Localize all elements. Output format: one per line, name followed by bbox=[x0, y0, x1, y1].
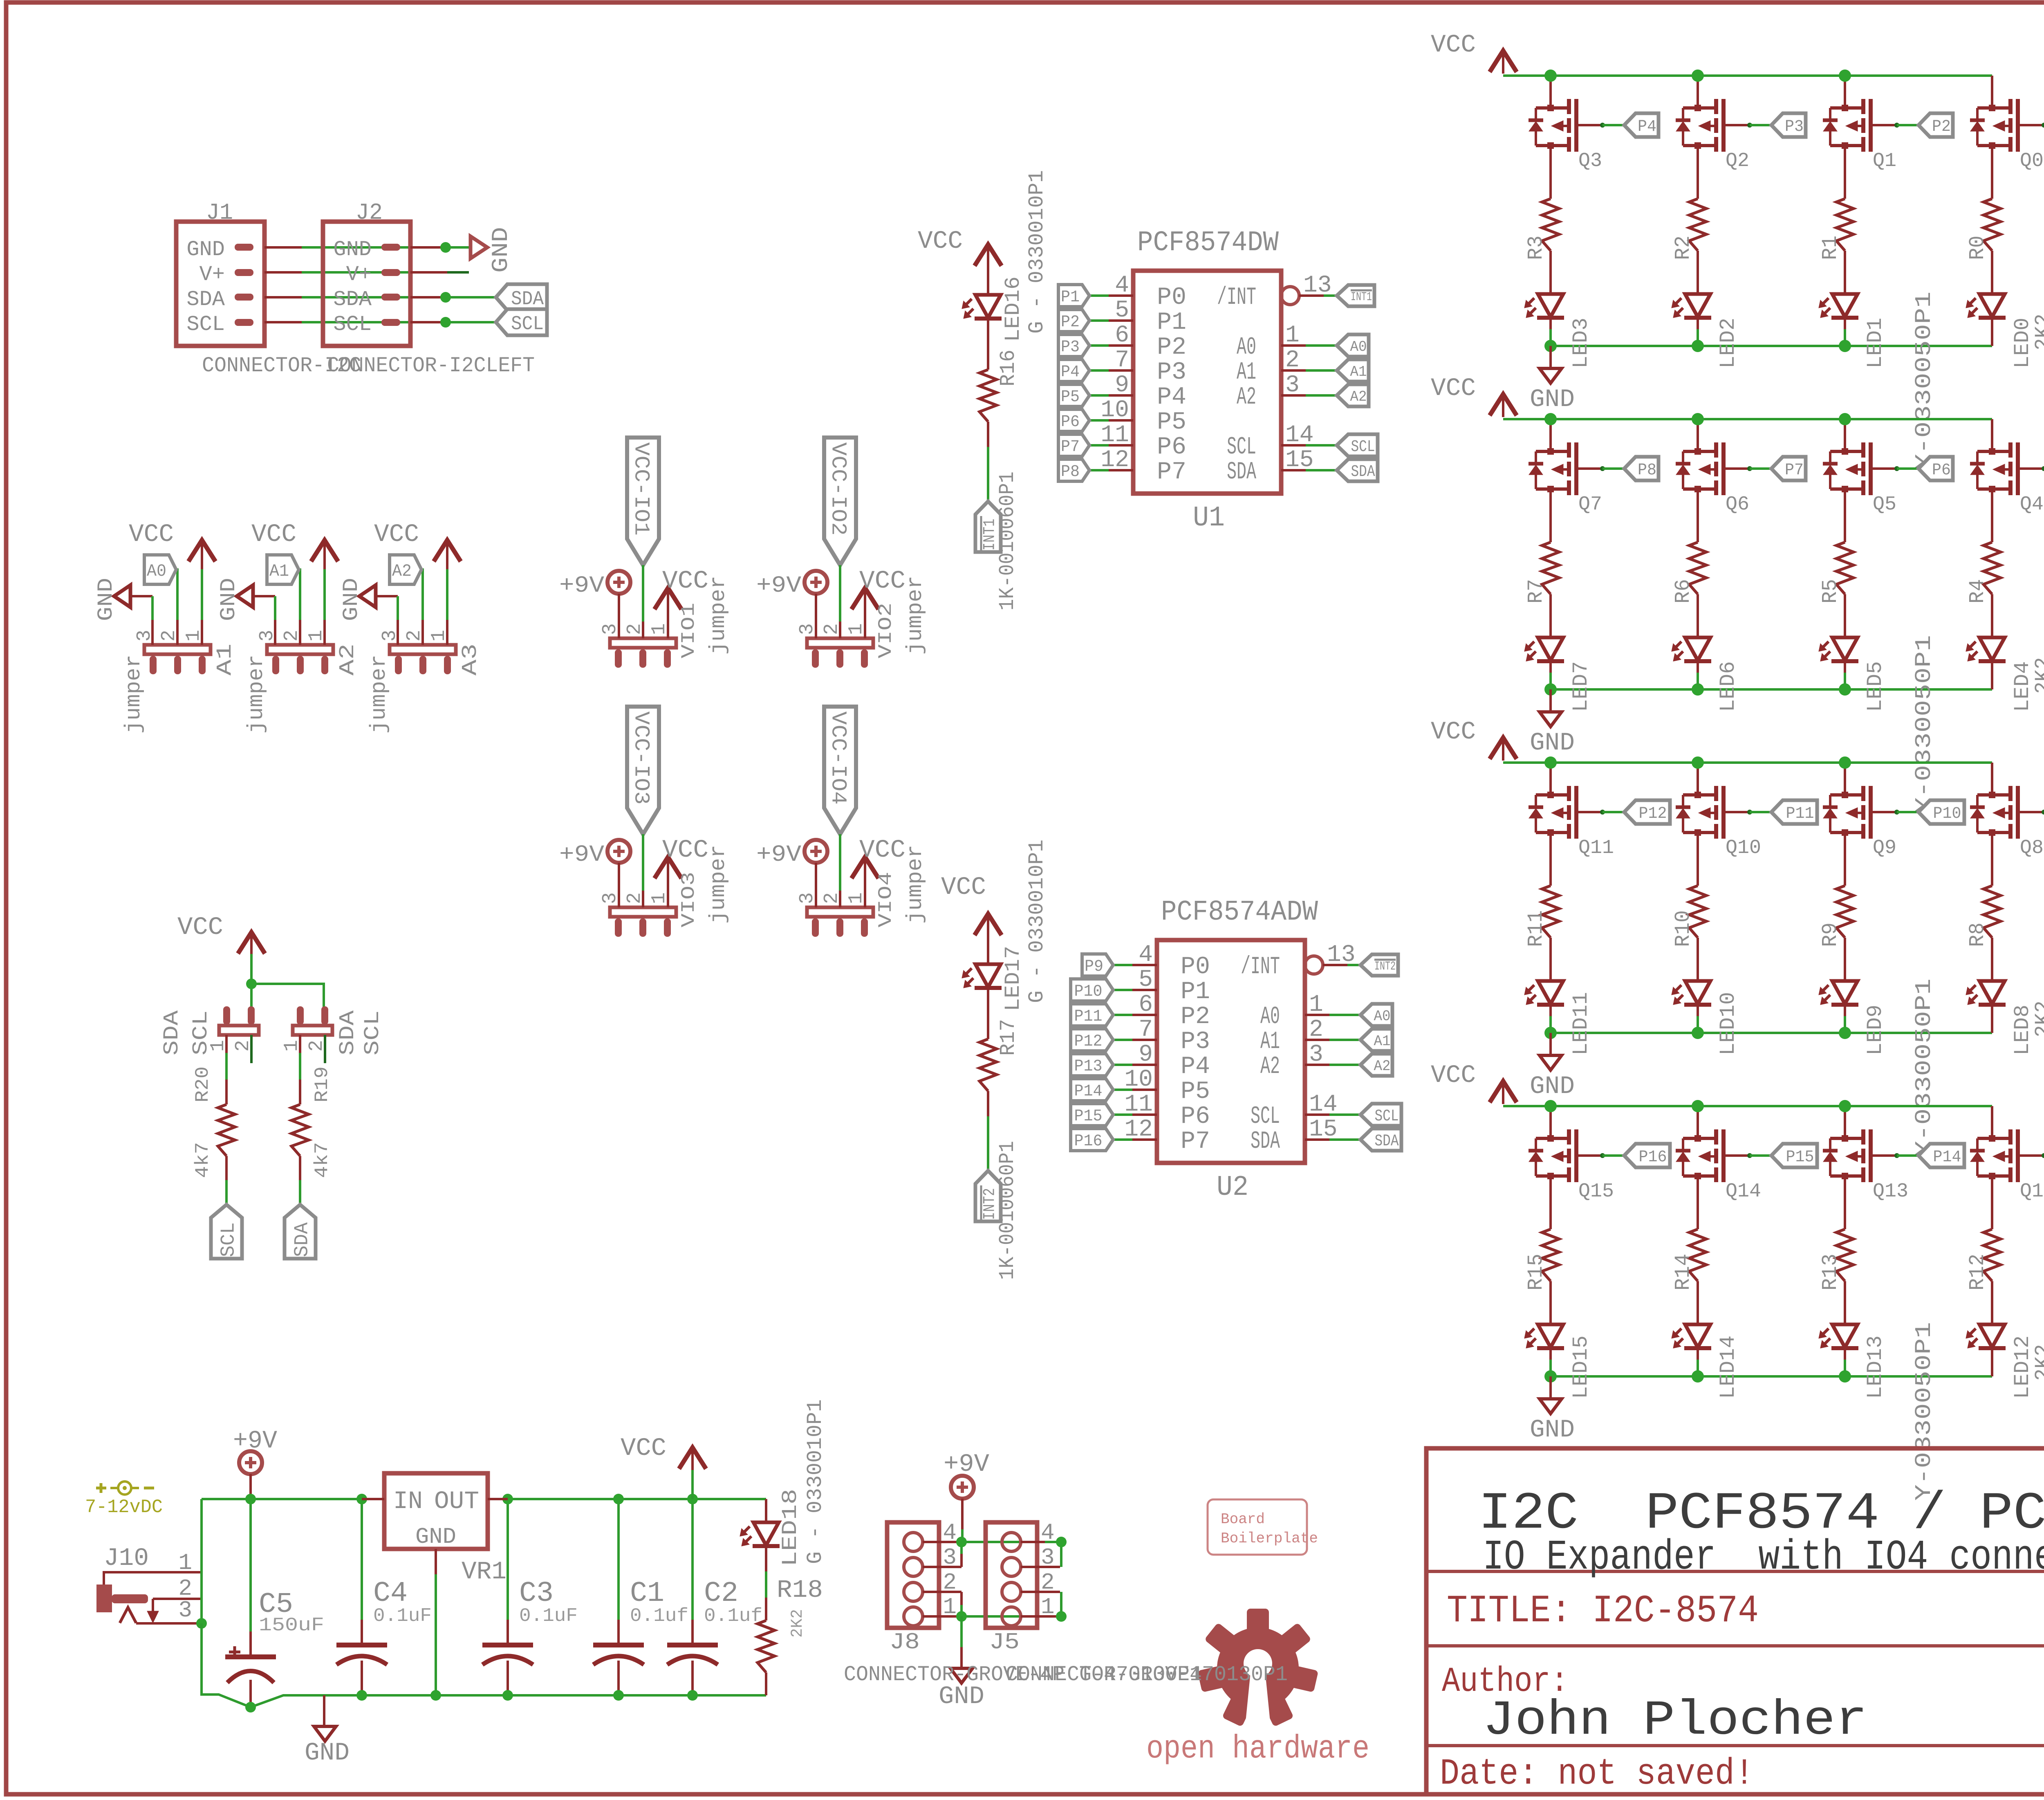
svg-text:A0: A0 bbox=[1350, 339, 1367, 355]
svg-text:2K2: 2K2 bbox=[2031, 657, 2044, 694]
power VCC arrow pullups bbox=[238, 932, 265, 954]
svg-text:2K2: 2K2 bbox=[789, 1609, 807, 1638]
svg-text:P1: P1 bbox=[1181, 978, 1210, 1006]
wire pin1 A2 to VCC bbox=[323, 568, 326, 620]
wire LED13 to cathode bus bbox=[1844, 1348, 1846, 1360]
pin 12 P7 of U1 bbox=[1109, 469, 1133, 471]
svg-text:Y-0330050P1: Y-0330050P1 bbox=[1911, 1322, 1937, 1501]
svg-text:LED3: LED3 bbox=[1569, 318, 1593, 368]
svg-text:P4: P4 bbox=[1638, 118, 1656, 136]
led LED13 bbox=[1832, 1324, 1858, 1347]
pin 11 P6 of U2 bbox=[1132, 1113, 1157, 1116]
flag P9 bbox=[1082, 954, 1113, 976]
wire to R19 jumper bbox=[251, 984, 324, 1007]
svg-text:jumper: jumper bbox=[706, 845, 731, 924]
svg-text:Q0: Q0 bbox=[2020, 150, 2044, 172]
svg-text:+9V: +9V bbox=[559, 573, 604, 599]
led LED10 bbox=[1685, 981, 1710, 1004]
svg-text:R8: R8 bbox=[1966, 922, 1990, 947]
svg-text:VCC: VCC bbox=[918, 227, 963, 256]
wire stub below jumper R20 bbox=[250, 1035, 253, 1063]
wire VCC bus row JP5 bbox=[1503, 761, 1992, 764]
wire VCC to junction bbox=[250, 954, 253, 984]
connector J5 bbox=[986, 1522, 1037, 1628]
flag SCL bbox=[496, 309, 547, 335]
svg-text:P4: P4 bbox=[1061, 363, 1080, 382]
svg-text:2: 2 bbox=[1285, 347, 1300, 374]
resistor R3 2K2 bbox=[1542, 199, 1559, 251]
junction dots J2 nets bbox=[440, 242, 451, 253]
svg-text:SCL: SCL bbox=[1251, 1103, 1280, 1131]
led LED0 bbox=[1979, 294, 2005, 317]
svg-text:G - 0330010P1: G - 0330010P1 bbox=[1025, 170, 1049, 334]
wire LED1 to cathode bus bbox=[1844, 318, 1846, 329]
svg-text:P7: P7 bbox=[1061, 438, 1080, 456]
connector J2 bbox=[323, 222, 410, 346]
svg-text:P2: P2 bbox=[1157, 334, 1186, 361]
svg-text:GND: GND bbox=[488, 227, 514, 273]
svg-text:A1: A1 bbox=[1350, 364, 1367, 380]
transistor Q3 bbox=[1549, 76, 1552, 108]
svg-text:J5: J5 bbox=[989, 1629, 1020, 1655]
pin 9 P4 of U1 bbox=[1109, 394, 1133, 397]
svg-text:2K2: 2K2 bbox=[2031, 314, 2044, 350]
wire VCC to pin1 VIO4 bbox=[864, 859, 866, 907]
flag A0 bbox=[144, 555, 176, 584]
svg-text:GND: GND bbox=[333, 238, 372, 262]
resistor R7 2K2 bbox=[1542, 542, 1559, 594]
flag P10 bbox=[1071, 979, 1113, 1001]
svg-text:P16: P16 bbox=[1639, 1148, 1667, 1167]
svg-text:LED14: LED14 bbox=[1716, 1335, 1740, 1399]
led LED6 bbox=[1685, 637, 1710, 660]
power VCC arrow row JP5 bbox=[1490, 738, 1517, 759]
junction dot bus col Q7 bbox=[1544, 413, 1557, 425]
resistor R0 2K2 bbox=[1983, 199, 2001, 251]
flag SCL pullup bbox=[211, 1205, 242, 1259]
wire LED5 to cathode bus bbox=[1844, 661, 1846, 673]
pin 10 P5 of U2 bbox=[1132, 1089, 1157, 1091]
flag P8 bbox=[1058, 459, 1089, 481]
svg-text:Q2: Q2 bbox=[1726, 150, 1749, 172]
wire pin2 A1 to flag A0 bbox=[176, 570, 177, 620]
svg-text:14: 14 bbox=[1309, 1091, 1338, 1118]
wire LED0 to cathode bus bbox=[1991, 318, 1993, 329]
wire gate Q12 to flag bbox=[2042, 1153, 2044, 1158]
transistor Q5 bbox=[1844, 419, 1846, 451]
capacitor C1 0.1uf bbox=[617, 1499, 620, 1620]
svg-text:R14: R14 bbox=[1671, 1254, 1695, 1291]
svg-text:R11: R11 bbox=[1524, 910, 1548, 947]
flag SDA right of U2 bbox=[1360, 1129, 1401, 1151]
svg-text:SDA: SDA bbox=[1251, 1128, 1280, 1156]
svg-text:IN: IN bbox=[393, 1488, 423, 1516]
jumper VIO3 bbox=[610, 907, 676, 917]
svg-text:GND: GND bbox=[305, 1739, 350, 1767]
wire VCC bus row JP1 bbox=[1503, 74, 1992, 77]
svg-text:A2: A2 bbox=[392, 561, 412, 581]
transistor Q6 bbox=[1697, 419, 1699, 451]
svg-text:R15: R15 bbox=[1524, 1254, 1548, 1291]
svg-text:P6: P6 bbox=[1157, 433, 1186, 461]
flag P7 gate Q6 bbox=[1771, 457, 1806, 480]
svg-text:P2: P2 bbox=[1061, 313, 1080, 332]
svg-text:P7: P7 bbox=[1181, 1128, 1210, 1156]
power VCC arrow VIO4 bbox=[852, 857, 879, 878]
led LED9 bbox=[1832, 981, 1858, 1004]
svg-text:13: 13 bbox=[1303, 272, 1332, 299]
voltage regulator VR1 bbox=[384, 1473, 488, 1549]
wire VCC to pin1 VIO3 bbox=[667, 859, 669, 907]
svg-text:GND: GND bbox=[94, 578, 118, 621]
svg-text:SCL: SCL bbox=[1351, 438, 1375, 456]
svg-text:G - 0330010P1: G - 0330010P1 bbox=[803, 1399, 827, 1564]
power VCC arrow A1 bbox=[188, 540, 215, 561]
wire LED2 to cathode bus bbox=[1697, 318, 1699, 329]
svg-text:VCC-IO3: VCC-IO3 bbox=[629, 711, 653, 805]
wire net V+ J1-J2 bbox=[302, 271, 446, 274]
svg-text:P6: P6 bbox=[1181, 1103, 1210, 1131]
svg-text:1K-0010060P1: 1K-0010060P1 bbox=[995, 471, 1020, 610]
pin OUT VR1 bbox=[488, 1498, 508, 1500]
resistor R6 2K2 bbox=[1689, 542, 1706, 594]
jumper VIO2 bbox=[807, 638, 873, 648]
svg-text:+9V: +9V bbox=[233, 1427, 277, 1455]
flag P12 gate Q11 bbox=[1624, 800, 1670, 824]
wire bottom ground rail bbox=[202, 1623, 766, 1707]
wire gate Q14 to flag bbox=[1747, 1153, 1752, 1158]
svg-text:SCL: SCL bbox=[217, 1222, 240, 1257]
svg-text:VCC: VCC bbox=[177, 913, 223, 942]
transistor Q8 bbox=[1991, 763, 1993, 795]
svg-text:INT1: INT1 bbox=[1351, 290, 1372, 304]
svg-text:1: 1 bbox=[178, 1550, 192, 1576]
svg-text:7: 7 bbox=[1139, 1017, 1153, 1043]
jumper for R19 bbox=[293, 1026, 332, 1035]
pin 7 P3 of U2 bbox=[1132, 1039, 1157, 1041]
svg-text:9: 9 bbox=[1139, 1041, 1153, 1068]
svg-text:A2: A2 bbox=[336, 644, 360, 676]
svg-text:LED18: LED18 bbox=[778, 1489, 802, 1567]
svg-text:12: 12 bbox=[1124, 1116, 1153, 1143]
pin 4 J5 bbox=[1021, 1541, 1045, 1543]
pin 10 P5 of U1 bbox=[1109, 419, 1133, 422]
junction dot bus col Q5 bbox=[1839, 413, 1851, 425]
flag INT1 below R16 bbox=[975, 501, 1001, 552]
flag P3 bbox=[1058, 334, 1089, 357]
svg-text:4k7: 4k7 bbox=[312, 1142, 333, 1178]
svg-text:GND: GND bbox=[939, 1683, 984, 1711]
svg-text:4k7: 4k7 bbox=[192, 1142, 213, 1178]
svg-text:3: 3 bbox=[178, 1597, 192, 1623]
svg-text:9: 9 bbox=[1115, 372, 1129, 399]
pin 3 J5 bbox=[1021, 1566, 1060, 1568]
wire J10 to input rail bbox=[200, 1499, 203, 1623]
svg-text:Q15: Q15 bbox=[1578, 1181, 1614, 1203]
led LED5 bbox=[1832, 637, 1858, 660]
pin 2 J8 bbox=[923, 1591, 961, 1593]
svg-text:P9: P9 bbox=[1085, 958, 1103, 976]
IC U2 PCF8574ADW bbox=[1157, 940, 1305, 1163]
wire pin3 A2 to GND bbox=[253, 595, 275, 597]
svg-text:2K2: 2K2 bbox=[2031, 1001, 2044, 1037]
pin 1 J10 bbox=[104, 1571, 202, 1573]
flag P10 gate Q9 bbox=[1918, 800, 1964, 824]
flag P11 gate Q10 bbox=[1771, 800, 1817, 824]
IC U1 PCF8574DW bbox=[1133, 271, 1281, 494]
svg-text:P3: P3 bbox=[1061, 338, 1080, 357]
flag A1 right of U2 bbox=[1360, 1029, 1392, 1051]
led LED12 bbox=[1979, 1324, 2005, 1347]
flag VCC-IO3 bbox=[627, 707, 659, 834]
flag SDA right of U1 bbox=[1337, 459, 1378, 481]
svg-text:0.1uf: 0.1uf bbox=[704, 1605, 762, 1627]
svg-text:Q11: Q11 bbox=[1578, 837, 1614, 859]
transistor Q4 bbox=[1991, 419, 1993, 451]
wire to R20 jumper bbox=[250, 984, 253, 1007]
svg-text:SDA: SDA bbox=[1227, 458, 1256, 486]
flag P14 bbox=[1071, 1079, 1113, 1101]
jumper A1 bbox=[144, 645, 211, 654]
flag P2 bbox=[1058, 310, 1089, 332]
svg-text:P3: P3 bbox=[1785, 118, 1804, 136]
led LED16 bbox=[975, 295, 1001, 318]
svg-text:CONNECTOR-I2CLEFT: CONNECTOR-I2CLEFT bbox=[327, 354, 535, 378]
flag P8 gate Q7 bbox=[1624, 457, 1659, 480]
svg-text:R3: R3 bbox=[1524, 236, 1548, 260]
ground symbol row JP6 left bbox=[1549, 1376, 1552, 1399]
svg-text:A0: A0 bbox=[1374, 1008, 1391, 1025]
svg-text:SDA: SDA bbox=[1351, 463, 1375, 481]
svg-text:jumper: jumper bbox=[367, 655, 391, 734]
connector J1 bbox=[176, 222, 264, 346]
barrel jack J10 bbox=[96, 1585, 112, 1612]
svg-text:P14: P14 bbox=[1933, 1148, 1961, 1167]
flag P4 gate Q3 bbox=[1624, 113, 1659, 137]
junction dot bus col Q15 bbox=[1544, 1100, 1557, 1112]
flag P4 bbox=[1058, 359, 1089, 382]
pin 5 P1 of U2 bbox=[1132, 989, 1157, 991]
transistor Q1 bbox=[1844, 76, 1846, 108]
flag A0 right of U2 bbox=[1360, 1004, 1392, 1026]
svg-text:Q5: Q5 bbox=[1873, 494, 1896, 516]
power +9V symbol grove bbox=[951, 1476, 974, 1499]
svg-text:VCC: VCC bbox=[941, 873, 986, 902]
svg-text:LED17: LED17 bbox=[1001, 946, 1025, 1011]
svg-text:Q3: Q3 bbox=[1578, 150, 1602, 172]
svg-text:U1: U1 bbox=[1193, 502, 1225, 534]
svg-text:Date: not saved!: Date: not saved! bbox=[1440, 1753, 1754, 1795]
svg-text:10: 10 bbox=[1124, 1066, 1153, 1093]
wire gate Q13 to flag bbox=[1894, 1153, 1899, 1158]
capacitor C2 0.1uf bbox=[691, 1499, 694, 1620]
transistor Q15 bbox=[1549, 1106, 1552, 1138]
svg-text:7-12vDC: 7-12vDC bbox=[85, 1497, 163, 1518]
svg-text:VCC: VCC bbox=[1431, 1062, 1476, 1090]
svg-text:PCF8574ADW: PCF8574ADW bbox=[1161, 896, 1318, 929]
svg-text:A1: A1 bbox=[269, 561, 289, 581]
svg-text:VIO1: VIO1 bbox=[678, 603, 699, 658]
wire +9V to pin3 VIO4 bbox=[815, 863, 817, 907]
svg-text:jumper: jumper bbox=[903, 576, 928, 655]
note Board Boilerplate bbox=[1208, 1499, 1307, 1555]
wire LED12 to cathode bus bbox=[1991, 1348, 1993, 1360]
svg-text:SCL: SCL bbox=[189, 1010, 213, 1055]
flag P16 bbox=[1071, 1129, 1113, 1151]
ground symbol grove bbox=[950, 1668, 973, 1683]
svg-text:P10: P10 bbox=[1933, 805, 1961, 823]
svg-text:LED2: LED2 bbox=[1716, 318, 1740, 368]
svg-text:V+: V+ bbox=[346, 263, 372, 287]
svg-text:A1: A1 bbox=[1260, 1028, 1280, 1056]
pin 13 /INT of U1 bbox=[1281, 287, 1299, 305]
pin 2 J5 bbox=[1021, 1591, 1060, 1593]
pin 6 P2 of U1 bbox=[1109, 344, 1133, 347]
junction dot bus col Q11 bbox=[1544, 756, 1557, 769]
svg-text:R12: R12 bbox=[1966, 1254, 1990, 1291]
svg-text:VIO3: VIO3 bbox=[678, 872, 699, 927]
wire VCC bus row JP6 bbox=[1503, 1105, 1992, 1107]
svg-text:P10: P10 bbox=[1074, 983, 1103, 1001]
svg-text:Q1: Q1 bbox=[1873, 150, 1896, 172]
capacitor C4 0.1uF bbox=[361, 1499, 363, 1620]
svg-text:P5: P5 bbox=[1061, 388, 1080, 406]
wire gate Q3 to flag bbox=[1600, 123, 1605, 128]
svg-text:SCL: SCL bbox=[1375, 1107, 1399, 1126]
svg-text:VCC: VCC bbox=[1431, 375, 1476, 403]
svg-text:LED6: LED6 bbox=[1716, 661, 1740, 712]
svg-text:GND: GND bbox=[1530, 729, 1575, 757]
led LED8 bbox=[1979, 981, 2005, 1004]
connector J8 bbox=[887, 1522, 939, 1628]
pin 14 SCL of U1 bbox=[1281, 444, 1306, 447]
power VCC arrow U2 chain bbox=[975, 914, 1002, 935]
svg-text:+9V: +9V bbox=[559, 842, 604, 868]
svg-text:R2: R2 bbox=[1671, 236, 1695, 260]
flag A2 right of U1 bbox=[1337, 384, 1369, 406]
svg-text:P12: P12 bbox=[1639, 805, 1667, 823]
resistor R2 2K2 bbox=[1689, 199, 1706, 251]
wire pin3 A3 to GND bbox=[375, 595, 398, 597]
pin GND VR1 bbox=[435, 1549, 437, 1574]
svg-text:VCC: VCC bbox=[374, 521, 419, 549]
svg-text:3: 3 bbox=[1309, 1041, 1323, 1068]
svg-text:Q4: Q4 bbox=[2020, 494, 2044, 516]
pin 14 SCL of U2 bbox=[1305, 1113, 1329, 1116]
pin 6 P2 of U2 bbox=[1132, 1014, 1157, 1016]
svg-text:INT2: INT2 bbox=[1374, 960, 1396, 974]
svg-text:R7: R7 bbox=[1524, 579, 1548, 604]
svg-text:GND: GND bbox=[217, 578, 241, 621]
svg-text:15: 15 bbox=[1285, 447, 1314, 474]
wire grove to GND bbox=[960, 1616, 963, 1647]
svg-text:Q6: Q6 bbox=[1726, 494, 1749, 516]
svg-text:P7: P7 bbox=[1157, 458, 1186, 486]
pin 1 J5 bbox=[1021, 1615, 1060, 1618]
svg-text:P4: P4 bbox=[1157, 384, 1186, 411]
svg-text:10: 10 bbox=[1100, 397, 1129, 424]
flag VCC-IO2 bbox=[824, 438, 856, 565]
svg-text:1: 1 bbox=[1285, 322, 1300, 349]
svg-text:11: 11 bbox=[1100, 422, 1129, 449]
pin 4 J8 bbox=[923, 1541, 961, 1543]
resistor R4 2K2 bbox=[1983, 542, 2001, 594]
svg-text:P3: P3 bbox=[1157, 359, 1186, 386]
resistor R9 2K2 bbox=[1836, 886, 1853, 938]
wire gate Q0 to flag bbox=[2042, 123, 2044, 128]
transistor Q13 bbox=[1844, 1106, 1846, 1138]
flag VCC-IO1 bbox=[627, 438, 659, 565]
power +9V symbol VIO2 bbox=[805, 571, 827, 594]
power VCC arrow VIO2 bbox=[852, 588, 879, 609]
svg-text:150uF: 150uF bbox=[259, 1615, 324, 1636]
svg-text:13: 13 bbox=[1327, 942, 1356, 968]
svg-text:R18: R18 bbox=[777, 1576, 823, 1605]
svg-text:John Plocher: John Plocher bbox=[1483, 1693, 1867, 1749]
svg-text:VCC-IO2: VCC-IO2 bbox=[826, 442, 850, 536]
svg-text:VIO4: VIO4 bbox=[875, 872, 896, 927]
wire pin3 A1 to GND bbox=[130, 595, 152, 597]
svg-text:/INT: /INT bbox=[1217, 284, 1256, 312]
svg-text:P2: P2 bbox=[1181, 1003, 1210, 1031]
pin 1 A0 of U1 bbox=[1281, 344, 1306, 347]
ground symbol GND A2 bbox=[237, 585, 253, 607]
power VCC arrow row JP1 bbox=[1490, 51, 1517, 72]
flag A1 bbox=[267, 555, 299, 584]
svg-text:LED15: LED15 bbox=[1569, 1335, 1593, 1399]
svg-text:P4: P4 bbox=[1181, 1053, 1210, 1081]
wire flag to pin2 VIO1 bbox=[642, 565, 644, 622]
svg-text:GND: GND bbox=[339, 578, 363, 621]
svg-text:P8: P8 bbox=[1638, 461, 1656, 480]
flag SDA pullup bbox=[285, 1205, 316, 1259]
led LED11 bbox=[1538, 981, 1563, 1004]
svg-text:R0: R0 bbox=[1966, 236, 1990, 260]
svg-text:LED1: LED1 bbox=[1863, 318, 1887, 368]
wire gate Q10 to flag bbox=[1747, 810, 1752, 815]
svg-text:LED10: LED10 bbox=[1716, 992, 1740, 1055]
wire LED7 to cathode bus bbox=[1549, 661, 1552, 673]
svg-text:Q7: Q7 bbox=[1578, 494, 1602, 516]
wire pin1 A3 to VCC bbox=[446, 568, 448, 620]
power +9V symbol supply bbox=[239, 1451, 262, 1474]
svg-text:P3: P3 bbox=[1181, 1028, 1210, 1056]
svg-text:IO Expander with IO4 connecto: IO Expander with IO4 connectors bbox=[1483, 1533, 2044, 1581]
flag A2 right of U2 bbox=[1360, 1054, 1392, 1076]
wire gate Q15 to flag bbox=[1600, 1153, 1605, 1158]
svg-text:Y-0330050P1: Y-0330050P1 bbox=[1911, 979, 1937, 1157]
svg-text:VCC: VCC bbox=[1431, 718, 1476, 746]
svg-text:A2: A2 bbox=[1350, 388, 1367, 405]
svg-text:2K2: 2K2 bbox=[2031, 1344, 2044, 1381]
flag P6 gate Q5 bbox=[1918, 457, 1953, 480]
wire +9V net grove bbox=[961, 1541, 1061, 1543]
power VCC arrow supply bbox=[679, 1448, 706, 1469]
svg-text:R19: R19 bbox=[312, 1066, 333, 1102]
svg-text:5: 5 bbox=[1139, 967, 1153, 993]
svg-text:P0: P0 bbox=[1157, 284, 1186, 312]
transistor Q9 bbox=[1844, 763, 1846, 795]
svg-text:VCC-IO1: VCC-IO1 bbox=[629, 442, 653, 536]
power VCC arrow U1 chain bbox=[975, 245, 1002, 266]
svg-text:VCC: VCC bbox=[621, 1434, 666, 1463]
flag INT2 right bbox=[1360, 954, 1398, 976]
svg-text:+9V: +9V bbox=[944, 1450, 989, 1479]
pin 4 P0 of U2 bbox=[1132, 964, 1157, 966]
wire gate Q4 to flag bbox=[2042, 466, 2044, 471]
svg-text:P11: P11 bbox=[1786, 805, 1814, 823]
svg-text:P14: P14 bbox=[1074, 1082, 1103, 1101]
